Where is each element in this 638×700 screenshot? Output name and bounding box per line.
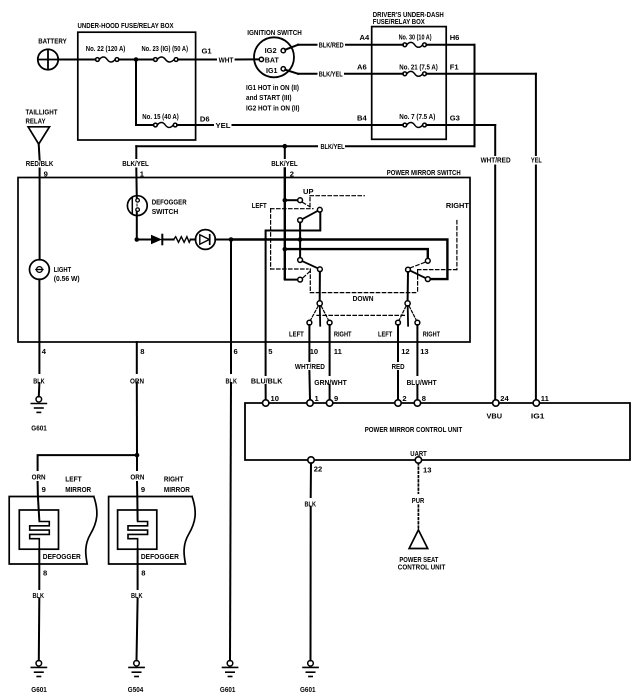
wire battery to under-hood box (58, 59, 95, 61)
svg-text:ORN: ORN (130, 472, 144, 481)
svg-text:DEFOGGER: DEFOGGER (141, 552, 179, 561)
svg-text:and START (III): and START (III) (246, 93, 292, 102)
power seat control unit (off-page triangle) (409, 530, 428, 549)
contact H (upper right fixed) (425, 258, 430, 263)
svg-text:BLK: BLK (131, 591, 143, 600)
svg-text:WHT/RED: WHT/RED (481, 156, 511, 165)
defogger switch label (152, 198, 187, 217)
svg-text:22: 22 (314, 465, 322, 474)
wire main vertical to contact F (285, 278, 298, 281)
UP linkage dashed (303, 196, 365, 207)
svg-text:RIGHT: RIGHT (423, 329, 441, 338)
svg-text:13: 13 (420, 347, 428, 356)
wire P down to right selector pole (407, 272, 409, 301)
junction dot defogger output (135, 237, 140, 242)
resistor (illumination dropping) (174, 237, 191, 243)
svg-text:G3: G3 (450, 114, 460, 123)
wire left mirror pin 9 (37, 482, 39, 497)
wire to No.15 row from junction (135, 60, 137, 126)
power mirror switch box (18, 178, 470, 343)
LED indicator (196, 230, 216, 250)
svg-text:F1: F1 (450, 63, 460, 72)
svg-text:IG1: IG1 (266, 66, 278, 75)
svg-text:BLK: BLK (305, 500, 317, 509)
svg-text:A4: A4 (360, 33, 370, 42)
svg-text:PUR: PUR (412, 496, 425, 505)
svg-text:A6: A6 (357, 63, 367, 72)
wire H6 out and down to BLK/YEL bus (426, 44, 474, 46)
wire pin 22 BLK down to ground (310, 463, 312, 497)
heavy wire junction to upper-right contact (285, 249, 428, 258)
left mirror defogger frame (19, 510, 58, 549)
left selector pole contact (317, 301, 322, 306)
control unit pin 13 terminal (UART) (415, 457, 421, 463)
wire pin 12 RED down to control unit pin 2 (397, 325, 399, 361)
ground G504 (right mirror) (129, 661, 144, 677)
control unit pin 22 terminal (308, 457, 314, 463)
left mirror label (65, 475, 91, 494)
wire pin5 vertical (265, 239, 267, 375)
svg-text:8: 8 (422, 394, 426, 403)
svg-text:BLK: BLK (33, 591, 45, 600)
wire IG1 to BLK/YEL (285, 70, 298, 74)
svg-text:BLU/WHT: BLU/WHT (407, 378, 437, 387)
svg-text:VBU: VBU (487, 411, 503, 420)
wire YEL to under-dash B4 (233, 124, 403, 126)
junction dot main vertical to upper-right contact row (283, 247, 288, 252)
svg-text:G504: G504 (128, 685, 144, 694)
right mirror box (torn edge) (109, 497, 196, 565)
wire BLK/YEL bus horizontal (346, 145, 475, 147)
power mirror control unit box (245, 403, 630, 460)
wire RED/BLK from relay down (38, 144, 41, 159)
svg-text:BLU/BLK: BLU/BLK (251, 376, 283, 385)
junction dot BLK/YEL bus to mirror switch (283, 144, 288, 149)
svg-text:RED/BLK: RED/BLK (26, 159, 54, 168)
svg-text:DEFOGGER: DEFOGGER (152, 198, 187, 207)
wire G1 from box to WHT label (178, 59, 216, 61)
svg-text:24: 24 (500, 394, 509, 403)
ground G601 (pin 6 wire) (223, 661, 238, 677)
control unit pin 24 terminal (493, 400, 499, 406)
left selector LEFT contact (307, 320, 312, 325)
wire fuse22 to fuse23 with junction (119, 59, 154, 61)
svg-text:BAT: BAT (265, 56, 280, 65)
svg-text:SWITCH: SWITCH (152, 207, 179, 216)
svg-text:10: 10 (310, 347, 318, 356)
svg-text:BLK/YEL: BLK/YEL (321, 142, 345, 151)
svg-text:CONTROL UNIT: CONTROL UNIT (398, 563, 446, 572)
svg-text:ORN: ORN (130, 376, 144, 385)
svg-text:BLK/YEL: BLK/YEL (271, 159, 298, 168)
svg-text:DOWN: DOWN (353, 294, 374, 303)
wire main BLK/YEL down to mirror switch pin 2 (284, 146, 286, 158)
svg-text:BLK: BLK (33, 376, 45, 385)
svg-text:No. 7 (7.5 A): No. 7 (7.5 A) (399, 112, 435, 121)
svg-text:11: 11 (541, 394, 550, 403)
fuse No.30 (10 A) (403, 42, 427, 47)
junction dot at contact A feed (283, 198, 288, 203)
svg-text:UP: UP (303, 187, 314, 196)
junction dot ORN split to both mirrors (135, 453, 140, 458)
under-hood fuse/relay box (78, 32, 196, 140)
driver's under-dash fuse/relay box (372, 27, 447, 140)
battery (38, 49, 58, 69)
svg-text:LIGHT: LIGHT (54, 265, 72, 274)
wire BLK/YEL down to defogger switch pin 1 (135, 146, 137, 158)
right defogger element (128, 522, 148, 550)
svg-text:LEFT: LEFT (252, 201, 267, 210)
wire WHT to ignition BAT (236, 58, 260, 60)
pole P (right, to right selector) (406, 267, 411, 272)
svg-text:RIGHT: RIGHT (446, 201, 469, 210)
wire right mirror pin 8 to ground (137, 549, 139, 589)
svg-text:YEL: YEL (216, 121, 231, 130)
svg-text:G1: G1 (202, 46, 213, 55)
control unit pin 1 terminal (307, 400, 313, 406)
under-dash box label (373, 10, 444, 26)
svg-text:No. 30 (10 A): No. 30 (10 A) (399, 33, 432, 42)
svg-text:13: 13 (423, 466, 431, 475)
svg-text:POWER MIRROR CONTROL UNIT: POWER MIRROR CONTROL UNIT (365, 425, 463, 434)
svg-text:DEFOGGER: DEFOGGER (43, 552, 81, 561)
wire D6 out of box (177, 124, 213, 126)
svg-text:2: 2 (402, 394, 406, 403)
LEFT linkage dashed (271, 209, 313, 293)
wire defogger switch to junction (136, 212, 138, 240)
junction dot node at under-hood bus (134, 57, 139, 62)
fuse No.15 (40 A) (154, 123, 178, 128)
svg-text:D6: D6 (200, 114, 210, 123)
svg-text:RIGHT: RIGHT (164, 475, 184, 484)
diode D (illumination feed) (151, 235, 162, 245)
svg-text:B4: B4 (357, 114, 367, 123)
svg-text:BLK/YEL: BLK/YEL (122, 159, 149, 168)
power seat control unit label (398, 555, 446, 571)
control unit pin 10 terminal (263, 400, 269, 406)
control unit pin 2 terminal (395, 400, 401, 406)
wire pin 6 BLK long vertical to ground (230, 240, 232, 374)
fuse No.7 (7.5 A) (403, 123, 427, 128)
wire pin 8 ORN down to mirrors junction (136, 342, 138, 373)
svg-text:IG2: IG2 (265, 46, 277, 55)
svg-text:GRN/WHT: GRN/WHT (314, 378, 347, 387)
ignition hot note (246, 83, 300, 113)
svg-text:RED: RED (392, 362, 405, 371)
wire E down to left selector pole (319, 272, 321, 301)
svg-text:BLK: BLK (226, 376, 238, 385)
wire resistor to LED (191, 239, 196, 241)
svg-text:2: 2 (290, 169, 294, 178)
light label (54, 265, 80, 283)
svg-text:POWER MIRROR SWITCH: POWER MIRROR SWITCH (387, 168, 461, 177)
fuse No.23 (IG) (50 A) (154, 57, 179, 62)
svg-text:WHT: WHT (219, 55, 234, 64)
svg-text:UNDER-HOOD FUSE/RELAY BOX: UNDER-HOOD FUSE/RELAY BOX (78, 21, 174, 30)
ground G601 (left mirror) (31, 661, 46, 677)
svg-text:BATTERY: BATTERY (38, 37, 66, 46)
fuse No.22 (120 A) (96, 57, 119, 62)
right selector arm (407, 306, 409, 326)
illumination light bulb (30, 260, 50, 280)
defogger switch (127, 196, 147, 216)
taillight relay (28, 127, 49, 144)
wire contact C to contact D (299, 223, 301, 258)
right mirror defogger frame (118, 510, 157, 549)
svg-text:(0.56 W): (0.56 W) (54, 274, 80, 283)
svg-text:H6: H6 (450, 33, 460, 42)
left mirror box (torn edge) (9, 497, 97, 565)
RIGHT linkage dashed (410, 221, 457, 293)
svg-text:G601: G601 (300, 685, 316, 694)
wire light to box bottom pin 4 (38, 279, 40, 342)
wire into right defogger element (136, 497, 138, 520)
svg-text:G601: G601 (31, 424, 47, 433)
wire BLK below pin 4 (38, 342, 40, 373)
svg-text:YEL: YEL (531, 156, 542, 165)
svg-text:8: 8 (43, 569, 47, 578)
svg-text:12: 12 (401, 347, 409, 356)
right selector RIGHT contact (415, 320, 420, 325)
wire ORN branch to left mirror (38, 455, 137, 470)
left selector dashed throws (311, 306, 329, 320)
wire into left defogger element (38, 497, 39, 520)
contact E (pole to left selector) (318, 267, 323, 272)
svg-text:9: 9 (42, 485, 46, 494)
svg-text:IG1 HOT in ON (II): IG1 HOT in ON (II) (246, 83, 299, 92)
wire B down and left to pin 5 (266, 212, 321, 239)
wire BLK/RED to A4 (346, 44, 403, 46)
svg-text:8: 8 (141, 569, 145, 578)
contact G (lower right fixed) (425, 277, 430, 282)
svg-text:FUSE/RELAY BOX: FUSE/RELAY BOX (373, 17, 425, 26)
svg-text:LEFT: LEFT (289, 329, 304, 338)
svg-text:ORN: ORN (32, 472, 46, 481)
wire pin 10 WHT/RED down to control unit pin 1 (308, 325, 310, 361)
selector linkage dashed (317, 314, 406, 316)
svg-text:9: 9 (141, 485, 145, 494)
switch arm B-C (302, 211, 317, 219)
contact D (298, 258, 303, 263)
wire IG2 to BLK/RED (285, 45, 298, 50)
svg-text:RELAY: RELAY (26, 117, 46, 126)
wire PUR dotted UART to power seat (417, 463, 419, 528)
svg-text:LEFT: LEFT (65, 475, 82, 484)
wire ORN down to right mirror (136, 455, 138, 470)
taillight relay label (26, 107, 58, 125)
right selector pole contact (405, 301, 410, 306)
wire left mirror pin 8 to ground (38, 549, 40, 589)
wire LED to junction pin6 (215, 239, 231, 241)
junction dot LED to pin 6 (229, 237, 234, 242)
control unit pin 8 terminal (414, 400, 420, 406)
svg-text:9: 9 (334, 394, 338, 403)
wire junction to diode (137, 239, 151, 241)
ground G601 (pin 22) (303, 661, 318, 677)
wire PUR label (412, 494, 425, 504)
svg-text:WHT/RED: WHT/RED (295, 362, 325, 371)
svg-text:RIGHT: RIGHT (334, 329, 352, 338)
right selector dashed throws (399, 306, 416, 320)
wire right mirror pin 9 (136, 482, 138, 497)
heavy wire LED row to right pole lower contact (231, 240, 447, 280)
svg-text:G601: G601 (220, 685, 236, 694)
wire to contact A (285, 199, 298, 201)
wire diode to resistor (162, 239, 173, 241)
svg-text:No. 23 (IG) (50 A): No. 23 (IG) (50 A) (142, 44, 189, 53)
svg-text:IG2 HOT in ON (II): IG2 HOT in ON (II) (246, 104, 300, 113)
ignition switch (254, 37, 294, 77)
left selector arm (319, 306, 321, 326)
svg-text:LEFT: LEFT (378, 329, 393, 338)
svg-text:G601: G601 (31, 685, 47, 694)
control unit pin 9 terminal (326, 400, 332, 406)
svg-text:IG1: IG1 (531, 411, 545, 420)
svg-text:No. 15 (40 A): No. 15 (40 A) (142, 112, 179, 121)
junction dot LED row at contact C/D column (298, 237, 303, 242)
right selector LEFT contact (396, 320, 401, 325)
switch arm D-E (302, 261, 317, 268)
control unit pin 11 terminal (533, 400, 539, 406)
wire F1 right and down as YEL (426, 73, 536, 75)
left selector RIGHT contact (327, 320, 332, 325)
switch arm P-G (410, 271, 425, 278)
wire pin 11 GRN/WHT down to control unit pin 9 (329, 325, 331, 375)
wire pin 13 BLU/WHT down to control unit pin 8 (416, 325, 418, 375)
svg-text:6: 6 (234, 347, 238, 356)
contact A (up fixed) (298, 198, 303, 203)
svg-text:10: 10 (271, 394, 279, 403)
fuse No.21 (7.5 A) (403, 71, 427, 76)
left defogger element (30, 522, 50, 550)
contact F (down fixed left) (298, 277, 303, 282)
svg-text:No. 22 (120 A): No. 22 (120 A) (86, 44, 126, 53)
svg-text:IGNITION SWITCH: IGNITION SWITCH (247, 28, 301, 37)
DOWN linkage dashed (310, 292, 417, 294)
wire BLK/YEL to A6 (345, 73, 403, 75)
wire G3 right and down as WHT/RED (426, 124, 495, 126)
svg-text:MIRROR: MIRROR (164, 485, 190, 494)
svg-text:8: 8 (140, 347, 144, 356)
svg-text:11: 11 (334, 347, 343, 356)
svg-text:BLK/RED: BLK/RED (319, 41, 344, 50)
svg-text:TAILLIGHT: TAILLIGHT (26, 107, 58, 116)
right mirror label (164, 475, 190, 494)
contact C (298, 218, 303, 223)
svg-text:BLK/YEL: BLK/YEL (319, 70, 343, 79)
svg-text:MIRROR: MIRROR (65, 485, 91, 494)
ground G601 (light) (31, 397, 46, 413)
svg-text:No. 21 (7.5 A): No. 21 (7.5 A) (399, 62, 438, 71)
contact B (pole to pin 5) (317, 207, 322, 212)
